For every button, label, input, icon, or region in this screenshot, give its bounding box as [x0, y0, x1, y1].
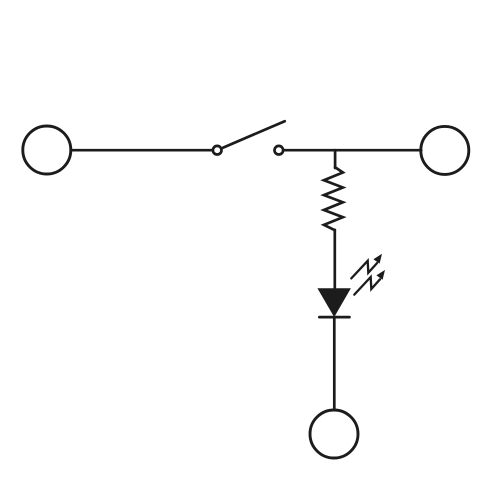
node A / wire down to resistor	[334, 150, 337, 168]
LED D1 cathode bar	[319, 316, 349, 319]
switch S1 left contact	[213, 146, 222, 155]
terminal T1 (left)	[23, 126, 71, 174]
wire node A to T2	[335, 149, 421, 152]
wire resistor to LED	[333, 230, 336, 290]
terminal T2 (right)	[421, 126, 469, 174]
resistor R1	[324, 167, 343, 230]
wire LED to T3	[333, 317, 336, 410]
switch S1 right contact	[275, 146, 284, 155]
switch S1 lever	[223, 121, 285, 148]
LED D1 anode triangle	[320, 290, 349, 315]
LED D1 light arrow 1	[351, 254, 382, 279]
LED D1 light arrow 2	[354, 270, 385, 295]
wire switch to node A	[284, 149, 335, 152]
terminal T3 (bottom)	[310, 410, 358, 458]
wire T1 to switch	[72, 149, 212, 152]
